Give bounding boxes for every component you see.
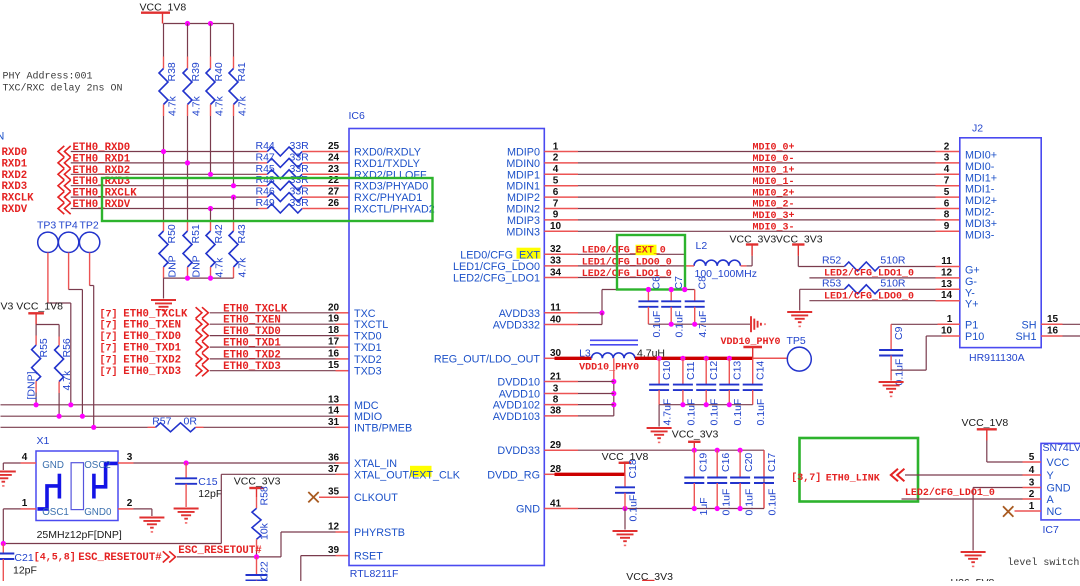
svg-text:MDI3+: MDI3+ xyxy=(965,218,997,230)
resistor R45 33R xyxy=(259,173,268,175)
IC6 pin name LED0/CFG_EXT xyxy=(517,248,541,259)
svg-text:RTL8211F: RTL8211F xyxy=(350,568,399,580)
resistor R49 33R xyxy=(259,208,268,210)
ground C10 bank xyxy=(647,427,672,429)
wire MDI0_2+ xyxy=(544,196,578,198)
pin 37 stub XTAL_OUT xyxy=(336,473,350,475)
svg-text:[7]: [7] xyxy=(100,320,118,332)
svg-text:J2: J2 xyxy=(972,123,983,135)
svg-text:ETH0_RXD2: ETH0_RXD2 xyxy=(73,165,131,177)
svg-text:MDI0-: MDI0- xyxy=(965,161,995,173)
svg-text:ESC_RESETOUT#: ESC_RESETOUT# xyxy=(178,545,262,557)
svg-text:C22: C22 xyxy=(259,561,271,580)
svg-text:33R: 33R xyxy=(290,163,310,175)
svg-text:33: 33 xyxy=(550,256,562,267)
svg-text:DVDD33: DVDD33 xyxy=(497,445,540,457)
svg-text:MDIN0: MDIN0 xyxy=(506,158,540,170)
wire SH xyxy=(1041,323,1062,325)
svg-text:MDI0_3-: MDI0_3- xyxy=(752,223,794,234)
resistor R41 4.7k xyxy=(233,24,235,57)
svg-text:4.7k: 4.7k xyxy=(214,257,226,278)
svg-text:C14: C14 xyxy=(755,361,767,380)
svg-text:12pF: 12pF xyxy=(198,488,222,500)
svg-text:TXD1: TXD1 xyxy=(354,342,382,354)
svg-text:6: 6 xyxy=(944,198,950,209)
wire DVDD10 pin 21 xyxy=(544,381,578,383)
svg-text:[4,5,8]: [4,5,8] xyxy=(34,552,76,564)
svg-text:V3 VCC_1V8: V3 VCC_1V8 xyxy=(1,301,64,313)
svg-text:33R: 33R xyxy=(290,186,310,198)
svg-text:8: 8 xyxy=(944,210,950,221)
capacitor C10 4.7uF xyxy=(658,358,660,384)
svg-text:12: 12 xyxy=(941,267,953,278)
svg-text:VCC_1V8: VCC_1V8 xyxy=(962,417,1009,429)
svg-text:RXD3: RXD3 xyxy=(2,181,28,193)
resistor R42 4.7k xyxy=(210,221,212,231)
off-page connector ETH0_RXDV xyxy=(58,203,71,214)
svg-text:3: 3 xyxy=(944,153,950,164)
svg-text:4.7k: 4.7k xyxy=(61,370,73,391)
wire MDI0_2- xyxy=(544,208,578,210)
capacitor C19 1uF xyxy=(693,450,695,477)
svg-text:33R: 33R xyxy=(290,197,310,209)
wire TP4 to MDIO xyxy=(69,289,83,291)
off-page connector ETH0_TXCLK xyxy=(196,307,209,318)
svg-text:TP5: TP5 xyxy=(787,335,806,347)
svg-text:3: 3 xyxy=(553,383,559,394)
svg-text:33R: 33R xyxy=(290,151,310,163)
wire ETH0_TXD1 xyxy=(210,346,336,348)
svg-text:U26_5V8: U26_5V8 xyxy=(951,577,995,581)
svg-text:[3,7]: [3,7] xyxy=(791,472,821,484)
svg-text:SH1: SH1 xyxy=(1015,331,1036,343)
svg-text:P10: P10 xyxy=(965,331,984,343)
svg-text:C18: C18 xyxy=(627,459,639,478)
ground cap bank rotated xyxy=(750,316,752,332)
svg-text:6: 6 xyxy=(553,187,559,198)
svg-text:5: 5 xyxy=(553,176,559,187)
svg-text:R52: R52 xyxy=(822,255,841,267)
svg-text:TXC/RXC delay 2ns ON: TXC/RXC delay 2ns ON xyxy=(3,83,123,95)
wire R40 column to ETH0_RXD2 xyxy=(210,116,212,174)
svg-text:MDI0_1-: MDI0_1- xyxy=(752,177,794,188)
svg-text:0.1uF: 0.1uF xyxy=(721,489,733,516)
svg-text:MDIN3: MDIN3 xyxy=(506,226,540,238)
svg-text:R43: R43 xyxy=(236,224,248,243)
wire rail to AVDD33 pins xyxy=(601,290,603,313)
svg-text:RXD2: RXD2 xyxy=(2,170,28,182)
wire VCC stub IC7 xyxy=(1023,461,1042,463)
wire R41 column to ETH0_RXD3 xyxy=(233,116,235,186)
resistor R57 0R xyxy=(148,426,156,428)
wire L2 right lead xyxy=(741,265,747,267)
junction dot R58 C22 xyxy=(254,554,259,559)
capacitor C11 0.1uF xyxy=(682,358,684,384)
svg-text:35: 35 xyxy=(328,487,340,498)
svg-text:RXCLK: RXCLK xyxy=(2,193,35,205)
svg-text:R41: R41 xyxy=(236,62,248,81)
junction dot C15 xyxy=(184,460,189,465)
svg-text:DVDD_RG: DVDD_RG xyxy=(487,469,540,481)
svg-text:AVDD33: AVDD33 xyxy=(499,308,540,320)
svg-text:R56: R56 xyxy=(61,338,73,357)
svg-text:7: 7 xyxy=(944,176,950,187)
wire RSET xyxy=(300,556,302,582)
capacitor C15 12pF xyxy=(185,463,187,478)
svg-text:C19: C19 xyxy=(697,453,709,472)
svg-text:TXD3: TXD3 xyxy=(354,366,382,378)
resistor R47 33R xyxy=(259,162,268,164)
junction dots MDC MDIO INTB xyxy=(34,402,39,407)
svg-text:MDI0_2+: MDI0_2+ xyxy=(752,188,794,199)
svg-text:ETH0_TXEN: ETH0_TXEN xyxy=(123,320,181,332)
svg-text:VCC_1V8: VCC_1V8 xyxy=(602,451,649,463)
wire pin4 to ground xyxy=(2,463,4,470)
crystal X1 electrode left xyxy=(58,474,62,499)
svg-text:ETH0_TXD1: ETH0_TXD1 xyxy=(123,343,181,355)
svg-text:DNP: DNP xyxy=(191,255,203,277)
wire REG_OUT thick xyxy=(544,357,556,359)
off-page connector ETH0_RXCLK xyxy=(58,192,71,203)
wire MDI0_1- xyxy=(544,185,578,187)
wire NC stub xyxy=(1015,510,1042,512)
svg-text:XTAL_OUT/EXT_CLK: XTAL_OUT/EXT_CLK xyxy=(354,469,461,481)
svg-text:C10: C10 xyxy=(661,361,673,380)
svg-text:PHYRSTB: PHYRSTB xyxy=(354,527,405,539)
svg-text:OSC1: OSC1 xyxy=(42,507,69,518)
svg-text:X1: X1 xyxy=(37,435,50,447)
svg-text:A: A xyxy=(1047,494,1055,506)
wire GND IC7 xyxy=(1023,487,1042,489)
svg-text:MDI1-: MDI1- xyxy=(965,184,995,196)
wire MDC row xyxy=(1,404,336,406)
svg-text:MDI0_3+: MDI0_3+ xyxy=(752,211,794,222)
svg-text:0.1uF: 0.1uF xyxy=(755,399,767,426)
svg-text:ETH0_TXD1: ETH0_TXD1 xyxy=(223,338,281,350)
svg-text:10k: 10k xyxy=(259,522,271,540)
svg-text:LED1/CFG_LDO0_0: LED1/CFG_LDO0_0 xyxy=(582,256,672,268)
svg-text:R46: R46 xyxy=(256,186,275,198)
no-connect CLKOUT xyxy=(308,492,318,502)
wire P10 xyxy=(942,335,960,337)
svg-text:MDI0_0-: MDI0_0- xyxy=(752,154,794,165)
svg-text:14: 14 xyxy=(941,290,953,301)
svg-text:4.7k: 4.7k xyxy=(237,257,249,278)
svg-text:MDI0_1+: MDI0_1+ xyxy=(752,166,794,177)
svg-text:IC7: IC7 xyxy=(1043,524,1060,536)
svg-text:ETH0_TXD0: ETH0_TXD0 xyxy=(123,331,181,343)
svg-text:20: 20 xyxy=(328,302,340,313)
svg-text:R39: R39 xyxy=(190,62,202,81)
svg-text:9: 9 xyxy=(944,221,950,232)
svg-text:TXD2: TXD2 xyxy=(354,354,382,366)
svg-text:MDIN1: MDIN1 xyxy=(506,181,540,193)
svg-text:LED2/CFG_LDO1: LED2/CFG_LDO1 xyxy=(453,273,540,285)
svg-text:21: 21 xyxy=(550,371,562,382)
svg-text:ETH0_TXCLK: ETH0_TXCLK xyxy=(123,308,188,320)
capacitor C9 0.1uF xyxy=(890,324,892,350)
svg-text:VCC_3V3: VCC_3V3 xyxy=(234,476,281,488)
svg-text:33R: 33R xyxy=(290,174,310,186)
svg-text:C9: C9 xyxy=(893,326,905,340)
svg-text:0.1uF: 0.1uF xyxy=(709,399,721,426)
svg-text:AVDD332: AVDD332 xyxy=(493,320,540,332)
svg-text:34: 34 xyxy=(550,267,562,278)
svg-text:C21: C21 xyxy=(14,552,33,564)
capacitor C8 4.7uF xyxy=(694,290,696,302)
svg-text:11: 11 xyxy=(941,256,952,267)
svg-text:0.1uF: 0.1uF xyxy=(685,399,697,426)
wire R42 column from ETH0_RXDV xyxy=(210,209,212,222)
ground X1 pin2 xyxy=(139,517,164,519)
svg-text:VCC_3V3: VCC_3V3 xyxy=(626,571,673,581)
svg-text:P1: P1 xyxy=(965,319,978,331)
svg-text:R57: R57 xyxy=(152,416,171,428)
svg-text:2: 2 xyxy=(944,141,950,152)
svg-text:5: 5 xyxy=(944,187,950,198)
svg-text:[DNP]: [DNP] xyxy=(26,371,38,399)
wire top bus xyxy=(164,23,234,25)
svg-text:XTAL_IN: XTAL_IN xyxy=(354,458,397,470)
junction dot C21 xyxy=(1,541,6,546)
svg-text:1: 1 xyxy=(22,498,28,509)
wire to testpoint TP5 xyxy=(753,357,787,359)
svg-text:MDC: MDC xyxy=(354,400,379,412)
svg-text:RXD3/PHYAD0: RXD3/PHYAD0 xyxy=(354,181,428,193)
junction dots cap rail over green xyxy=(646,287,651,292)
svg-text:C15: C15 xyxy=(198,476,217,488)
svg-text:MDI2+: MDI2+ xyxy=(965,195,997,207)
wire ETH0_LINK to Y xyxy=(905,474,1023,476)
svg-text:level switch:: level switch: xyxy=(1007,557,1080,569)
wire AVDD332 pin 40 xyxy=(544,324,578,326)
resistor R44 33R xyxy=(259,151,268,153)
capacitor C21 12pF xyxy=(2,544,4,554)
svg-text:MDI1+: MDI1+ xyxy=(965,172,997,184)
green highlight box PHYAD straps xyxy=(102,178,433,221)
svg-text:33R: 33R xyxy=(290,140,310,152)
svg-text:C6: C6 xyxy=(650,276,662,290)
svg-text:RXC/PHYAD1: RXC/PHYAD1 xyxy=(354,192,422,204)
junction dots RXD pullups xyxy=(161,149,166,154)
wire ESC_RESETOUT# xyxy=(177,556,281,558)
svg-text:TXD0: TXD0 xyxy=(354,331,382,343)
wire MDI0_1+ xyxy=(544,173,578,175)
svg-text:[7]: [7] xyxy=(100,331,118,343)
svg-text:37: 37 xyxy=(328,464,340,475)
wire AVDD33 cap rail xyxy=(602,289,695,291)
wire C18 to ground xyxy=(624,509,626,530)
svg-text:REG_OUT/LDO_OUT: REG_OUT/LDO_OUT xyxy=(434,353,541,365)
svg-text:SH: SH xyxy=(1022,319,1037,331)
svg-text:R58: R58 xyxy=(259,486,271,505)
wire ETH0_RXD3 xyxy=(71,185,259,187)
svg-text:R48: R48 xyxy=(256,174,275,186)
svg-text:L2: L2 xyxy=(696,240,708,252)
svg-text:VCC_3V3: VCC_3V3 xyxy=(672,429,719,441)
capacitor C7 0.1uF xyxy=(670,290,672,302)
svg-text:TP3: TP3 xyxy=(37,220,56,232)
wire A IC7 xyxy=(902,498,1023,500)
off-page connector ETH0_LINK xyxy=(891,469,905,482)
off-page connector ETH0_TXD3 xyxy=(196,365,209,376)
svg-text:0R: 0R xyxy=(184,416,198,428)
wire R39 column to ETH0_RXD1 xyxy=(187,116,189,163)
svg-text:Y: Y xyxy=(1047,470,1054,482)
svg-text:ETH0_TXD3: ETH0_TXD3 xyxy=(123,366,181,378)
wire ETH0_TXEN xyxy=(210,323,336,325)
svg-text:510R: 510R xyxy=(880,278,906,290)
svg-text:MDI0+: MDI0+ xyxy=(965,150,997,162)
svg-text:SN74LV1: SN74LV1 xyxy=(1043,442,1080,454)
svg-text:13: 13 xyxy=(328,394,340,405)
green highlight box ETH0_LINK xyxy=(800,438,919,502)
svg-text:MDIP1: MDIP1 xyxy=(507,169,540,181)
svg-text:MDI0_0+: MDI0_0+ xyxy=(752,143,794,154)
svg-text:2: 2 xyxy=(553,153,559,164)
ground X1 pin4 xyxy=(0,471,16,473)
svg-text:NC: NC xyxy=(1047,506,1063,518)
IC U6 RTL8211F body xyxy=(349,129,544,566)
svg-text:1uF: 1uF xyxy=(698,497,710,515)
svg-text:MDIP3: MDIP3 xyxy=(507,215,540,227)
wire INTB row xyxy=(1,426,148,428)
svg-text:4.7k: 4.7k xyxy=(191,95,203,116)
wire AVDD10 pin 3 xyxy=(544,393,578,395)
svg-text:INTB/PMEB: INTB/PMEB xyxy=(354,422,412,434)
svg-text:7: 7 xyxy=(553,198,559,209)
svg-text:0.1uF: 0.1uF xyxy=(744,489,756,516)
svg-text:0.1uF: 0.1uF xyxy=(767,489,779,516)
svg-text:GND0: GND0 xyxy=(84,507,112,518)
wire DVDD_RG thick xyxy=(544,473,556,475)
wire ETH0_RXD2 xyxy=(71,173,259,175)
off-page connector ETH0_RXD3 xyxy=(58,180,71,191)
svg-text:4.7uF: 4.7uF xyxy=(662,399,674,426)
ground IC7 xyxy=(961,551,986,553)
capacitor C13 0.1uF xyxy=(728,358,730,384)
svg-text:AVDD103: AVDD103 xyxy=(493,411,540,423)
svg-text:C12: C12 xyxy=(708,361,720,380)
svg-text:C11: C11 xyxy=(685,361,697,380)
wire C10 bank ground rail xyxy=(659,404,753,406)
junction dots top bus xyxy=(185,21,190,26)
svg-text:R55: R55 xyxy=(38,338,50,357)
svg-text:ETH0_TXD0: ETH0_TXD0 xyxy=(223,326,281,338)
svg-text:RXDV: RXDV xyxy=(2,204,28,216)
svg-text:ETH0_TXD2: ETH0_TXD2 xyxy=(123,354,181,366)
resistor R39 4.7k xyxy=(187,24,189,57)
svg-text:MDI3-: MDI3- xyxy=(965,229,995,241)
svg-text:RXD2/PLLOFF: RXD2/PLLOFF xyxy=(354,169,427,181)
svg-text:TXCTL: TXCTL xyxy=(354,319,388,331)
IC IC7 body xyxy=(1041,443,1080,520)
capacitor C14 0.1uF xyxy=(752,358,754,384)
capacitor C6 0.1uF xyxy=(647,290,649,302)
wire ETH0_TXD0 xyxy=(210,335,336,337)
svg-text:RSET: RSET xyxy=(354,551,383,563)
no-connect IC7 pin1 xyxy=(1003,506,1013,516)
svg-text:39: 39 xyxy=(328,545,340,556)
crystal X1 body xyxy=(36,451,118,521)
ground pull-down rail xyxy=(151,299,176,301)
connector J2 body xyxy=(960,138,1041,348)
svg-text:VDD10_PHY0: VDD10_PHY0 xyxy=(579,363,639,374)
svg-text:18: 18 xyxy=(328,325,340,336)
svg-text:13: 13 xyxy=(941,279,953,290)
capacitor C16 0.1uF xyxy=(716,450,718,477)
svg-text:RXD1: RXD1 xyxy=(2,158,28,170)
svg-text:R49: R49 xyxy=(256,197,275,209)
svg-text:RXD1/TXDLY: RXD1/TXDLY xyxy=(354,158,420,170)
wire DVDD33 pin 29 rail xyxy=(544,449,578,451)
svg-text:C16: C16 xyxy=(720,453,732,472)
capacitor C17 0.1uF xyxy=(763,450,765,477)
svg-text:0.1uF: 0.1uF xyxy=(628,495,640,522)
wire MDI0_0- xyxy=(544,162,578,164)
svg-text:ETH0_RXD0: ETH0_RXD0 xyxy=(73,142,131,154)
svg-text:Y+: Y+ xyxy=(965,299,979,311)
off-page connector ETH0_TXD2 xyxy=(196,353,209,364)
svg-text:ETH0_RXCLK: ETH0_RXCLK xyxy=(73,188,138,200)
svg-text:C8: C8 xyxy=(697,276,709,290)
wire R57 to IC6 xyxy=(204,426,336,428)
svg-text:MDIP2: MDIP2 xyxy=(507,192,540,204)
svg-text:R44: R44 xyxy=(256,140,275,152)
svg-text:R51: R51 xyxy=(190,224,202,243)
svg-text:RXD0: RXD0 xyxy=(2,147,28,159)
svg-text:[7]: [7] xyxy=(100,308,118,320)
svg-text:R47: R47 xyxy=(256,151,275,163)
IC6 pin name XTAL_OUT/EXT_CLK xyxy=(410,466,432,477)
svg-text:C13: C13 xyxy=(731,361,743,380)
svg-text:HR911130A: HR911130A xyxy=(969,352,1025,364)
svg-text:19: 19 xyxy=(328,314,340,325)
wire VCC to R55 R56 xyxy=(35,325,37,336)
svg-text:L3: L3 xyxy=(579,348,591,360)
svg-text:36: 36 xyxy=(328,453,340,464)
svg-text:Y-: Y- xyxy=(965,287,975,299)
wire R53 to ground xyxy=(799,289,801,310)
wire SH1 xyxy=(1041,335,1062,337)
svg-text:GND: GND xyxy=(516,504,540,516)
svg-text:41: 41 xyxy=(550,498,562,509)
off-page connector ETH0_RXD0 xyxy=(58,146,71,157)
svg-text:40: 40 xyxy=(550,314,562,325)
svg-text:17: 17 xyxy=(328,337,340,348)
resistor R55 DNP xyxy=(35,336,37,346)
wire LED2/CFG_LDO1_0 to J2 xyxy=(809,277,935,279)
wire MDIO row xyxy=(1,415,336,417)
svg-text:510R: 510R xyxy=(880,255,906,267)
svg-text:CLKOUT: CLKOUT xyxy=(354,492,398,504)
svg-text:C17: C17 xyxy=(766,453,778,472)
resistor R43 4.7k xyxy=(233,221,235,231)
svg-text:LED0/CFG_EXT: LED0/CFG_EXT xyxy=(460,249,540,261)
svg-text:RXD0/RXDLY: RXD0/RXDLY xyxy=(354,147,421,159)
svg-text:4: 4 xyxy=(553,164,559,175)
svg-text:N: N xyxy=(0,131,4,143)
wire R43 column from ETH0_RXCLK xyxy=(233,197,235,221)
wire MDI0_3- xyxy=(544,230,578,232)
svg-text:[7]: [7] xyxy=(100,366,118,378)
wire MDI0_0+ xyxy=(544,151,578,153)
svg-text:32: 32 xyxy=(550,244,562,255)
net label LED0/CFG_EXT_0 xyxy=(636,245,657,256)
resistor R56 4.7k xyxy=(58,337,60,346)
svg-text:R42: R42 xyxy=(213,224,225,243)
off-page connector ETH0_RXD2 xyxy=(58,169,71,180)
